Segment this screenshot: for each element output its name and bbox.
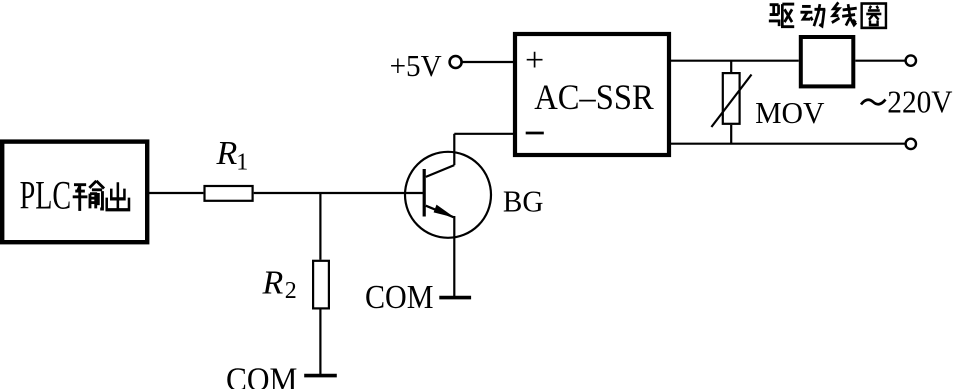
svg-text:BG: BG [503,184,544,219]
svg-text:AC–SSR: AC–SSR [534,77,654,117]
svg-text:COM: COM [226,362,297,389]
svg-text:MOV: MOV [755,95,825,130]
svg-text:1: 1 [236,150,248,176]
svg-text:+: + [525,42,544,79]
svg-text:R: R [262,264,284,301]
svg-text:220V: 220V [887,84,952,120]
svg-text:PLC: PLC [20,172,72,217]
svg-text:R: R [216,135,238,172]
svg-text:+5V: +5V [390,48,443,83]
svg-text:2: 2 [285,278,297,304]
svg-text:COM: COM [365,279,434,316]
